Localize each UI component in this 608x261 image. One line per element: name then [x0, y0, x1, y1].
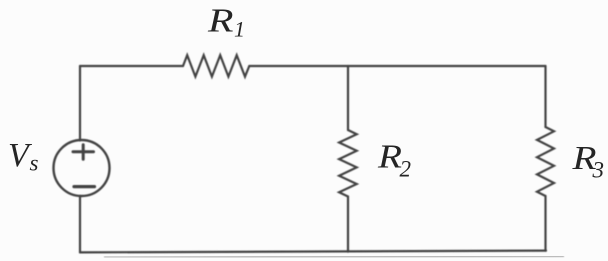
minus polarity mark inside Vs [74, 185, 95, 188]
plus polarity mark inside Vs [73, 145, 94, 159]
wire right lower (R3 to bottom node) [544, 196, 546, 251]
voltage source Vs circle [54, 140, 110, 196]
wire left lower (Vs negative terminal to bottom node) [79, 196, 81, 253]
wire left upper (top node to Vs positive terminal) [79, 66, 81, 141]
svg-text:s: s [30, 151, 39, 176]
resistor R3 [537, 127, 554, 196]
wire middle lower (R2 to bottom node) [347, 197, 349, 252]
resistor R2 [339, 130, 357, 197]
svg-text:R: R [377, 139, 402, 176]
wire top-left segment (node between Vs and R1) [80, 65, 183, 67]
svg-text:1: 1 [234, 17, 245, 42]
svg-text:3: 3 [592, 158, 605, 183]
wire middle upper (node A to R2) [347, 66, 349, 130]
svg-text:R: R [207, 3, 234, 40]
svg-text:2: 2 [400, 157, 412, 182]
wire top-right segment (node A joining R1, R2, R3) [249, 65, 545, 67]
wire right upper (node A to R3) [544, 66, 546, 127]
scan artifact line below bottom wire [104, 256, 564, 257]
wire bottom (common bottom node) [80, 251, 546, 253]
resistor R1 [183, 55, 249, 76]
